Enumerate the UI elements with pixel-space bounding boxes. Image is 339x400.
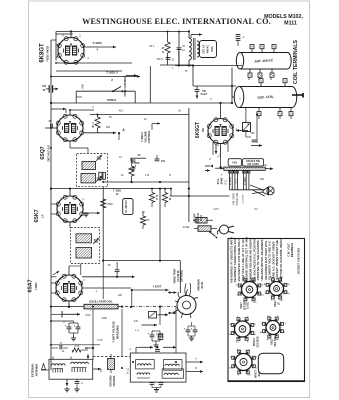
resistor R3 1M grid bbox=[95, 117, 100, 128]
wire can2 drop bbox=[231, 68, 233, 104]
wire y182 bbox=[103, 181, 189, 183]
socket S5 6K6GT bbox=[235, 354, 252, 371]
svg-text:DET-AVC-A.F.: DET-AVC-A.F. bbox=[47, 144, 51, 161]
transformer T1 oscillator winding bbox=[189, 38, 191, 42]
wire arrow vol bbox=[152, 123, 160, 125]
svg-text:6K8GT: 6K8GT bbox=[253, 338, 256, 347]
svg-text:T. BSS: T. BSS bbox=[92, 41, 101, 45]
wire tube V4 left leads bbox=[51, 203, 57, 205]
wire left bus vertical bbox=[50, 40, 52, 189]
wire x93 vertical bbox=[92, 309, 94, 360]
capacitor C18 bbox=[150, 382, 155, 384]
resistor R7 right bbox=[149, 193, 154, 203]
plug 110V AC bbox=[220, 225, 229, 234]
wire y188.6 bus bbox=[50, 188, 171, 190]
wire x180.3 drop to speaker bbox=[179, 261, 181, 293]
svg-text:6SQ7: 6SQ7 bbox=[271, 338, 274, 345]
capacitor C15 right pair bbox=[150, 334, 155, 336]
wire V3 top lead bbox=[220, 103, 222, 118]
capacitor C16 right pair bbox=[158, 334, 163, 336]
wire x103 vertical bbox=[102, 187, 104, 261]
capacitor C7 electrolytic bank 1 bbox=[229, 171, 231, 190]
wire arrow T.BSS 2 bbox=[51, 76, 140, 78]
svg-text:M111: M111 bbox=[284, 21, 297, 27]
blank plate bbox=[258, 353, 283, 374]
svg-text:P.M. SPKR: P.M. SPKR bbox=[234, 193, 236, 205]
svg-text:22K: 22K bbox=[118, 294, 123, 297]
svg-text:SOCKET VOLTAGES: SOCKET VOLTAGES bbox=[297, 248, 301, 275]
wire v4 bottom lead bbox=[69, 222, 71, 228]
wire plate arrow T.BSS 4 bbox=[84, 46, 116, 48]
svg-text:MODELS M102,: MODELS M102, bbox=[264, 14, 303, 20]
wire v4 top lead bbox=[69, 189, 71, 196]
coil can ANT 456KC bbox=[236, 53, 243, 70]
label Y BATT arrow bbox=[147, 289, 169, 291]
wire V3 right lead bbox=[236, 130, 248, 132]
svg-text:C.W. VOLT: C.W. VOLT bbox=[287, 243, 291, 257]
trimmer IF2 right bbox=[94, 239, 98, 241]
wire T1 bottom bbox=[188, 60, 190, 66]
wire y114.5 bus bbox=[90, 114, 189, 116]
node junction j1 bbox=[55, 62, 57, 64]
fuse resistor block1 bbox=[196, 218, 207, 224]
socket S3 6K8GT bbox=[235, 321, 251, 337]
switch tone control bbox=[113, 87, 121, 92]
speaker rear view bbox=[177, 296, 196, 315]
wire fuse leads bbox=[207, 219, 213, 221]
wire caps to bus bbox=[73, 321, 75, 323]
svg-text:+: + bbox=[156, 332, 158, 336]
svg-text:OSC: OSC bbox=[85, 314, 90, 317]
svg-text:VOICE COIL: VOICE COIL bbox=[237, 192, 239, 206]
antenna coil L1 bumps bbox=[52, 364, 55, 366]
svg-text:40 MFD: 40 MFD bbox=[230, 177, 232, 186]
label IF 456 KC box bbox=[123, 199, 133, 215]
svg-text:AC: AC bbox=[255, 356, 258, 359]
grid cap box V1 bbox=[55, 34, 57, 61]
svg-text:+: + bbox=[65, 324, 67, 328]
svg-text:AVC: AVC bbox=[119, 110, 124, 113]
trimmer T3 box bbox=[243, 123, 251, 132]
svg-text:45 V.: 45 V. bbox=[149, 45, 155, 48]
antenna coil L2 bumps bbox=[71, 362, 75, 364]
svg-text:6SA7: 6SA7 bbox=[240, 302, 243, 309]
wire electrolytic bottom bus bbox=[230, 189, 265, 191]
svg-text:OPTIONAL: OPTIONAL bbox=[181, 269, 184, 282]
svg-text:1ST. I.F.: 1ST. I.F. bbox=[202, 44, 206, 54]
svg-text:WESTINGHOUSE ELEC. INTERNATION: WESTINGHOUSE ELEC. INTERNATIONAL CO. bbox=[82, 17, 271, 26]
svg-text:I.F. 456 KC: I.F. 456 KC bbox=[125, 200, 128, 213]
transformer IF1 primary coil bbox=[82, 161, 96, 169]
label box 1ST IF 456KC bbox=[200, 41, 217, 58]
wire y307 left bbox=[51, 306, 84, 308]
tube V5 6SA7 bbox=[56, 275, 82, 301]
capacitor C20 pre-antenna bbox=[59, 345, 61, 350]
wire junction dots osc bbox=[178, 64, 180, 66]
oscillator coil bar bbox=[84, 304, 118, 309]
arrow into tube5 top bbox=[53, 271, 59, 275]
wire v5 right lead bbox=[82, 287, 131, 289]
capacitor C19 under speaker bbox=[186, 329, 191, 331]
svg-text:AC: AC bbox=[276, 338, 279, 341]
svg-text:Y BATT VOLTAGE: Y BATT VOLTAGE bbox=[113, 321, 116, 343]
svg-text:450: 450 bbox=[260, 178, 265, 181]
wire can2 bottom to trimmer bbox=[245, 108, 247, 123]
wire x150 vertical bbox=[149, 66, 151, 103]
svg-text:TONE CONTROL: TONE CONTROL bbox=[123, 75, 127, 97]
svg-text:117V: 117V bbox=[213, 208, 219, 211]
svg-text:+: + bbox=[184, 327, 186, 331]
svg-text:TUBE B: TUBE B bbox=[107, 99, 117, 102]
svg-text:SPKR: SPKR bbox=[221, 177, 224, 184]
trimmer IF1 bottom bbox=[97, 177, 101, 179]
wire tube V5 left leads bbox=[51, 282, 56, 284]
switch power toggle bbox=[210, 232, 216, 237]
svg-text:T. BSS 3: T. BSS 3 bbox=[141, 132, 144, 142]
svg-text:G: G bbox=[217, 144, 219, 147]
svg-text:6SA7: 6SA7 bbox=[28, 279, 34, 292]
wire bottom bus y103 bbox=[51, 102, 232, 104]
fuse resistor block2 bbox=[198, 226, 211, 232]
wire x160 vertical bbox=[159, 189, 161, 261]
wire osc section bbox=[160, 64, 193, 66]
svg-text:I.F.: I.F. bbox=[278, 302, 280, 305]
svg-text:OSC MOD: OSC MOD bbox=[257, 336, 259, 347]
socket layout box bbox=[228, 239, 305, 382]
trimmer right of osc bbox=[149, 312, 157, 319]
wire arrow ant right bbox=[93, 368, 101, 370]
svg-text:6K8GT: 6K8GT bbox=[40, 43, 46, 63]
wire x257 drop bbox=[256, 115, 258, 144]
svg-text:+ +: + + bbox=[135, 328, 139, 332]
resistor R10 ant hatched bbox=[108, 359, 115, 370]
wire long vertical x188.9 bbox=[188, 108, 190, 182]
wire left bus lower vertical bbox=[50, 189, 52, 371]
tube V3 6K6GT output bbox=[208, 119, 233, 144]
antenna coil L5 box bbox=[162, 369, 183, 378]
svg-text:PLUG: PLUG bbox=[201, 282, 204, 289]
wire IF1 leads bbox=[87, 148, 89, 154]
resistor R12 below IF label bbox=[140, 216, 145, 225]
wire bar arrow left side bbox=[215, 167, 224, 169]
capacitor C5 30 input bbox=[45, 127, 58, 129]
wire V3 bottom leads bbox=[220, 144, 222, 159]
ground sym near IF2 bbox=[84, 212, 86, 215]
socket S2 6SQ7 bbox=[270, 282, 284, 296]
control box ON-OFF SW bbox=[243, 159, 264, 166]
svg-text:ANTENNA: ANTENNA bbox=[34, 364, 38, 377]
wire x117 vertical with cap bbox=[116, 262, 118, 269]
wire blob squiggle leads up bbox=[185, 283, 191, 296]
svg-text:Y BATT: Y BATT bbox=[153, 285, 162, 288]
wire v4 right arrow bbox=[84, 212, 101, 214]
svg-text:T.L.: T.L. bbox=[218, 153, 221, 157]
speaker cone bbox=[263, 187, 269, 195]
svg-text:AC: AC bbox=[237, 348, 240, 351]
arrow y325 bbox=[142, 324, 158, 326]
wire pre-antenna links bbox=[85, 347, 93, 349]
node junctions y188.6 bbox=[50, 188, 52, 190]
transformer IF2 primary coil bbox=[76, 234, 92, 243]
wire dash-dot line to right bbox=[118, 306, 176, 308]
svg-text:1 M: 1 M bbox=[145, 174, 149, 177]
antenna coil L3 box bbox=[136, 360, 155, 369]
svg-text:3.2 OHM: 3.2 OHM bbox=[243, 194, 245, 203]
capacitor C14 pair bbox=[76, 326, 81, 328]
svg-text:CHASSIS: CHASSIS bbox=[113, 375, 116, 386]
svg-text:K: K bbox=[162, 50, 164, 54]
wire can2 to bus bbox=[232, 96, 234, 98]
svg-text:ON-OFF SW: ON-OFF SW bbox=[246, 160, 260, 163]
svg-text:8H: 8H bbox=[201, 128, 205, 131]
wire trimmer down bbox=[245, 132, 247, 138]
wire dashed y356.6 bbox=[93, 356, 130, 358]
svg-text:OSCILLATOR COIL: OSCILLATOR COIL bbox=[89, 300, 113, 304]
svg-text:6K6GT: 6K6GT bbox=[255, 370, 258, 379]
wire T1 top arrow bbox=[188, 30, 190, 38]
tube V4 6SK7 IF bbox=[57, 196, 83, 222]
svg-text:DET AVC: DET AVC bbox=[274, 336, 277, 346]
svg-text:AC: AC bbox=[260, 331, 263, 334]
svg-text:.0002: .0002 bbox=[101, 317, 108, 320]
svg-text:6K6GT: 6K6GT bbox=[195, 122, 201, 138]
svg-text:M 111: M 111 bbox=[127, 367, 130, 374]
svg-text:220K: 220K bbox=[74, 346, 80, 348]
wire right vert x131 bbox=[131, 290, 133, 308]
junction dots extra bbox=[50, 76, 52, 78]
socket S1 6SA7 bbox=[242, 282, 258, 298]
wire y344.8 bbox=[51, 344, 100, 346]
antenna loop box M111 bbox=[130, 353, 186, 382]
transformer T1 secondary winding bbox=[197, 41, 199, 45]
wire speaker diag bbox=[252, 190, 265, 196]
wire v5 bottom lead bbox=[68, 301, 70, 307]
svg-text:AC: AC bbox=[267, 338, 270, 341]
wire IF2 bottom lead bbox=[80, 264, 82, 276]
svg-text:6SQ7: 6SQ7 bbox=[274, 300, 277, 307]
svg-text:100: 100 bbox=[161, 160, 166, 163]
capacitor trimmer can1 left bbox=[236, 34, 241, 36]
svg-text:MEASURED: MEASURED bbox=[117, 325, 120, 339]
wire y276.8 bus bbox=[82, 276, 132, 278]
svg-text:+: + bbox=[191, 327, 193, 331]
transformer IF2 secondary coil bbox=[76, 248, 92, 259]
svg-text:220: 220 bbox=[106, 126, 111, 129]
socket S4 6SQ7 det bbox=[266, 321, 280, 335]
svg-text:6SQ7: 6SQ7 bbox=[40, 146, 46, 159]
capacitor C2b on x179 bbox=[178, 32, 180, 48]
wire ext antenna lead bbox=[41, 369, 49, 371]
node junction tube1 top bbox=[70, 30, 72, 32]
svg-text:+: + bbox=[74, 324, 76, 328]
resistor R11 pre-antenna bbox=[72, 348, 81, 352]
resistor R5 TBSS bbox=[129, 166, 134, 176]
svg-text:1 DET: 1 DET bbox=[34, 282, 38, 290]
svg-text:25 V.: 25 V. bbox=[235, 178, 237, 183]
wire y260.6 link bbox=[103, 260, 180, 262]
antenna coil L6 bumps bbox=[137, 373, 140, 375]
transformer IF1 box dashed bbox=[77, 154, 108, 187]
svg-text:47K: 47K bbox=[145, 220, 150, 222]
svg-text:+: + bbox=[221, 173, 223, 177]
svg-text:EXTERNAL: EXTERNAL bbox=[31, 363, 35, 377]
wire x160 low vert bbox=[159, 307, 161, 325]
wire top bus bbox=[56, 31, 189, 33]
svg-text:5-75: 5-75 bbox=[98, 339, 103, 342]
resistor R6 bbox=[101, 199, 106, 208]
svg-text:FUSE: FUSE bbox=[183, 226, 190, 229]
capacitor C17 ant bbox=[75, 381, 80, 383]
capacitor C13 pair bbox=[67, 326, 72, 328]
transformer IF1 secondary coil bbox=[81, 173, 96, 183]
ground c15 bbox=[155, 341, 157, 343]
svg-text:CONTROL: CONTROL bbox=[147, 130, 151, 143]
capacitor C6 100 bbox=[155, 158, 160, 160]
wire y71 line bbox=[56, 70, 122, 72]
wire arrow at left bus y108 bbox=[51, 108, 66, 110]
wire x188.9 extension down bbox=[188, 182, 190, 222]
wire M111 exit arrows bbox=[186, 361, 203, 363]
wire v5 top lead bbox=[68, 266, 70, 275]
svg-text:VOL: VOL bbox=[232, 161, 238, 165]
wire tube V3 cathode drop bbox=[220, 158, 222, 167]
capacitor C4 TW point bbox=[196, 86, 198, 89]
svg-text:456 KC: 456 KC bbox=[206, 44, 210, 53]
tone control box bbox=[76, 90, 135, 92]
svg-text:AC: AC bbox=[253, 333, 256, 336]
wire y196 right link bbox=[170, 189, 172, 196]
svg-text:250 V.: 250 V. bbox=[157, 58, 164, 61]
svg-text:250K: 250K bbox=[107, 203, 113, 206]
wire x176 drop to M111 box bbox=[175, 307, 177, 348]
tube V2 6SQ7 bbox=[57, 115, 83, 141]
wire L1 L2 stubs bbox=[52, 357, 54, 360]
resistor R8 right bbox=[162, 193, 167, 203]
chassis hatched bar bbox=[224, 167, 265, 170]
diode arrow left bbox=[62, 313, 80, 315]
wire v2 bottom cluster bbox=[130, 157, 146, 159]
svg-text:20 MFD: 20 MFD bbox=[245, 177, 247, 186]
svg-text:B.T.L.: B.T.L. bbox=[225, 178, 228, 184]
antenna loop box M102 bbox=[49, 359, 93, 379]
svg-text:K: K bbox=[156, 198, 158, 201]
transformer IF2 box dashed bbox=[71, 228, 100, 264]
wire y86 bus bbox=[193, 85, 236, 87]
svg-text:+: + bbox=[148, 332, 150, 336]
svg-text:6SK7: 6SK7 bbox=[34, 209, 40, 222]
svg-text:OSC: OSC bbox=[210, 46, 214, 52]
svg-text:READINGS: READINGS bbox=[290, 243, 294, 257]
capacitor C1 TW 30 bbox=[48, 85, 50, 92]
svg-text:M: M bbox=[169, 198, 171, 201]
coil can OSC bbox=[234, 87, 243, 108]
wire x122 vertical bbox=[121, 309, 123, 357]
svg-text:VOL CONT: VOL CONT bbox=[247, 164, 259, 166]
svg-text:M: M bbox=[92, 124, 94, 128]
wire speaker leads bbox=[250, 185, 263, 190]
wire under tube1 bbox=[56, 62, 132, 64]
speaker blob arrows bbox=[168, 291, 170, 293]
svg-text:COIL TERMINALS: COIL TERMINALS bbox=[293, 39, 299, 84]
wire plate arrow to A bbox=[84, 132, 117, 134]
resistor R1 47K bbox=[165, 42, 170, 53]
resistor R9 small box bbox=[158, 334, 163, 340]
antenna coil L4 box bbox=[164, 360, 183, 371]
capacitor C8 electrolytic bank 2 bbox=[243, 171, 245, 190]
wires above M111 box bbox=[140, 346, 153, 348]
svg-text:TW: TW bbox=[42, 85, 47, 88]
wire can2 bottom lug stubs bbox=[258, 116, 260, 119]
svg-text:I.F.: I.F. bbox=[41, 214, 45, 218]
control box VOL bbox=[228, 159, 241, 166]
svg-text:PoinT: PoinT bbox=[201, 93, 208, 96]
coil can 2 shaft bbox=[292, 94, 303, 96]
wire node A lead bbox=[118, 133, 120, 140]
wire bar arrows left bbox=[205, 165, 210, 167]
tube V1 6K8GT bbox=[58, 38, 84, 64]
wire tube V2 top lead bbox=[69, 110, 71, 115]
speaker blob lead arrows bbox=[170, 292, 177, 294]
trimmer IF1 top bbox=[97, 156, 101, 158]
wire bar arrow right bbox=[265, 168, 273, 170]
ground c13 bbox=[73, 333, 75, 336]
svg-text:AC: AC bbox=[264, 283, 267, 286]
svg-text:47K: 47K bbox=[134, 320, 139, 323]
svg-text:& OSC: & OSC bbox=[248, 302, 250, 310]
wire can1 bottom lug stubs bbox=[248, 77, 250, 80]
capacitor C2 mid bbox=[166, 57, 171, 59]
capacitor C11 if bbox=[99, 172, 102, 179]
tone box stub bbox=[76, 96, 82, 98]
ground antenna arrow bbox=[66, 379, 68, 386]
svg-text:VOLUME: VOLUME bbox=[144, 131, 148, 142]
svg-text:OSC-MOD: OSC-MOD bbox=[46, 46, 50, 60]
svg-text:BOTTOM OF CHASSIS. WECO: BOTTOM OF CHASSIS. WECO bbox=[279, 238, 283, 282]
